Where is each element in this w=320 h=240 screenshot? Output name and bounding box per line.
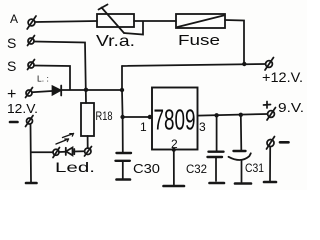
- wire diode to vertical feed: [62, 89, 123, 91]
- junction fuse-rail: [242, 62, 246, 66]
- terminal +9V circle: [267, 108, 276, 121]
- ground left: [26, 182, 37, 185]
- svg-text:L. :: L. :: [37, 74, 49, 84]
- ground pin2: [164, 185, 185, 188]
- svg-text:Vr.a.: Vr.a.: [96, 33, 135, 50]
- resistor R18: [81, 103, 94, 148]
- svg-text:C30: C30: [133, 161, 160, 176]
- wire - output to ground: [269, 147, 271, 181]
- wire S2 down to + wire: [34, 66, 70, 90]
- terminal - output circle: [267, 137, 275, 150]
- wire S1 to R18 top: [34, 42, 86, 104]
- capacitor C30: [116, 153, 132, 179]
- junction C31: [239, 113, 243, 117]
- LED D2: [59, 148, 85, 156]
- capacitor C31 electrolytic: [229, 115, 251, 182]
- wire + terminal to diode: [32, 91, 52, 92]
- fuse F1: [176, 14, 225, 28]
- svg-text:Fuse: Fuse: [178, 32, 220, 49]
- svg-text:+12.V.: +12.V.: [262, 69, 303, 85]
- LED arrows: [56, 134, 74, 145]
- svg-text:S: S: [7, 58, 16, 74]
- ground C30: [117, 178, 131, 181]
- ground C31: [235, 182, 251, 185]
- svg-text:1: 1: [140, 120, 147, 134]
- regulator U1 7809 box: [152, 88, 198, 150]
- node A terminal circle: [27, 16, 36, 29]
- svg-text:S: S: [7, 35, 16, 51]
- wire A to Vr.a: [35, 21, 97, 22]
- minus sign of output: [280, 141, 289, 144]
- svg-text:Led.: Led.: [55, 159, 95, 175]
- svg-text:7809: 7809: [154, 105, 196, 137]
- ground C32: [210, 182, 225, 185]
- variable resistor Vr.a: [97, 5, 134, 34]
- capacitor C32: [208, 116, 224, 182]
- svg-text:R18: R18: [96, 111, 113, 123]
- node + terminal circle: [26, 88, 33, 98]
- junction R18 vertical on + wire: [84, 88, 88, 92]
- wire feed vertical to pin1 and C30: [121, 66, 124, 152]
- junction + wire to feed vertical: [120, 88, 124, 92]
- wire - terminal down to ground: [30, 125, 33, 183]
- node S1 terminal circle: [28, 36, 35, 46]
- wire wiper loop of Vr.a: [124, 22, 143, 35]
- svg-text:C32: C32: [186, 162, 207, 176]
- junction pin1 left: [120, 115, 124, 119]
- wire Vr.a to fuse: [134, 20, 176, 22]
- wire fuse to +12V rail: [225, 20, 244, 64]
- wire pin3 rail: [198, 114, 268, 116]
- node - terminal label: [10, 121, 18, 124]
- ground - output: [264, 181, 276, 184]
- node - terminal circle: [26, 116, 34, 127]
- diode D1: [53, 86, 62, 96]
- svg-text:A: A: [10, 12, 18, 26]
- junction pin1 right: [148, 115, 152, 119]
- wire +12V rail: [122, 64, 266, 66]
- plus sign of 9V: [264, 102, 271, 109]
- svg-text:12.V.: 12.V.: [7, 101, 38, 116]
- wire pin1: [123, 116, 152, 118]
- node S2 terminal circle: [28, 60, 35, 70]
- svg-text:C31: C31: [245, 163, 264, 175]
- LED right circle: [85, 147, 92, 157]
- wire branch to LED: [31, 151, 53, 153]
- svg-text:3: 3: [199, 120, 206, 134]
- LED left circle: [53, 148, 60, 158]
- terminal +12V circle: [265, 58, 274, 71]
- svg-text:9.V.: 9.V.: [278, 100, 304, 115]
- wire pin2 to ground: [173, 150, 175, 185]
- junction pin2: [172, 148, 176, 152]
- junction C32: [214, 113, 218, 117]
